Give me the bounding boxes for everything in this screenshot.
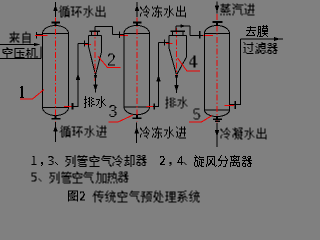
- vessel 3 top nozzle stem: [136, 23, 138, 26]
- vessel 5 condensate pipe: [216, 123, 218, 147]
- vessel 5 bottom nozzle flange 2: [215, 121, 220, 122]
- cyclone 4 drain down arrow: [174, 85, 179, 92]
- vessel 3 cooler bottom tangent line: [124, 106, 150, 108]
- cyclone 2 cone right: [96, 52, 102, 75]
- cyclone 4 inlet pipe: [159, 42, 170, 44]
- vessel 1 cooler shell right wall: [68, 34, 70, 108]
- label: drain 2: [166, 97, 188, 109]
- vessel 1 cooling water inlet pipe: [55, 122, 57, 142]
- callout leader 1 (red): [20, 90, 44, 100]
- callout leader 3 (red): [109, 115, 134, 122]
- cyclone 2 right wall: [101, 36, 103, 53]
- cyclone 2 drain pipe: [95, 75, 97, 93]
- riser 2 up arrow: [156, 75, 161, 82]
- label: chilled water out: [140, 6, 186, 18]
- vessel 3 inlet pipe: [113, 34, 125, 36]
- vessel 3 top nozzle flange: [133, 22, 142, 24]
- compressor lower line: [0, 58, 41, 60]
- cyclone 4 outlet elbow down: [189, 26, 191, 36]
- caption B digit 5: [32, 172, 37, 181]
- vessel 1 cooler bottom tangent line: [43, 107, 69, 109]
- vessel 3 cooler bottom dished head: [124, 107, 150, 115]
- vessel 5 top nozzle stem: [216, 23, 218, 26]
- vessel 5 condensate down arrow: [215, 130, 220, 137]
- callout digit 4: [190, 56, 198, 68]
- vessel 1 cooler top tangent line: [43, 33, 69, 35]
- vessel 5 heater top dished head: [204, 26, 229, 34]
- caption A: cyclone separator: [194, 155, 252, 167]
- cyclone 2 outlet flange bar: [90, 31, 101, 33]
- cyclone 4 outlet pipe horizontal: [176, 25, 190, 27]
- vessel 1 outlet flange tick: [72, 103, 74, 109]
- cyclone 2 cone left: [89, 47, 96, 76]
- label: from (lai zi): [9, 32, 30, 44]
- air inlet red centerline: [35, 35, 48, 37]
- label: drain 1: [84, 96, 106, 108]
- cyclone 4 inlet red centerline: [166, 43, 173, 45]
- callout digit 5: [194, 109, 201, 120]
- callout leader 2 (red): [98, 56, 121, 68]
- cyclone 2 outlet pipe elbow down: [112, 27, 114, 35]
- vessel 3 air outlet pipe: [150, 106, 160, 108]
- cyclone 2 flange tick left: [91, 32, 93, 36]
- cyclone 2 centerline (red dash-dot): [94, 29, 96, 82]
- cyclone 2 inlet flange tick: [84, 41, 86, 47]
- cyclone 4 outlet stub: [175, 26, 177, 31]
- cyclone 4 cone left: [169, 48, 177, 75]
- label: circulating water out: [59, 6, 106, 18]
- vessel 1 top nozzle stem: [55, 23, 57, 26]
- callout digit 3: [110, 105, 117, 117]
- vessel 5 steam down arrow: [215, 6, 220, 13]
- vessel 1 cooler bottom dished head: [43, 108, 69, 116]
- vessel 1 bottom nozzle flange: [51, 118, 60, 120]
- vessel 5 bottom nozzle flange: [213, 118, 222, 120]
- caption A: tube air cooler: [66, 155, 147, 167]
- cyclone 4 top edge: [169, 35, 187, 37]
- vessel 3 inlet red centerline: [120, 35, 128, 37]
- cyclone 4 centerline (red dash-dot): [176, 28, 178, 82]
- caption A dun comma 1: [55, 162, 58, 165]
- label: to membrane: [246, 25, 268, 37]
- vessel 1 centerline (red dash-dot): [55, 18, 57, 122]
- filter outlet pipe horizontal: [241, 38, 284, 40]
- cyclone 2 left wall: [88, 36, 90, 47]
- riser pipe to cyclone 2: [77, 44, 79, 107]
- vessel 1 air outlet red centerline: [64, 106, 73, 108]
- vessel 3 bottom nozzle flange: [133, 118, 142, 120]
- cyclone 2 cone tip wedge: [94, 75, 97, 80]
- vessel 3 cooler shell left wall: [123, 34, 125, 108]
- vessel 5 heater shell left wall: [204, 34, 206, 111]
- air inlet flange tick: [36, 32, 38, 39]
- caption C title: [93, 191, 200, 203]
- vessel 5 inlet pipe: [190, 35, 205, 37]
- caption A dun comma 2: [184, 162, 187, 165]
- vessel 3 water outlet up arrow: [135, 5, 140, 11]
- cyclone 2 inlet pipe: [78, 43, 89, 45]
- cyclone 2 drain down arrow: [93, 85, 98, 92]
- vessel 5 air outlet red centerline: [225, 105, 235, 107]
- cyclone 2 outlet stub: [94, 27, 96, 31]
- vessel 3 cooler top tangent line: [124, 33, 150, 35]
- callout digit 1: [20, 86, 24, 98]
- caption B: tube air heater: [50, 172, 129, 184]
- vessel 5 heater shell right wall: [229, 34, 231, 111]
- label: air compressor: [3, 47, 38, 59]
- caption A digit 2: [160, 156, 165, 165]
- caption A digit 1: [32, 156, 37, 165]
- vessel 3 centerline (red dash-dot): [136, 18, 138, 122]
- callout leader 5 (red): [189, 116, 212, 123]
- caption C figure number: [68, 191, 85, 202]
- vessel 3 cooler top dished head: [124, 26, 150, 34]
- label: condensate out: [221, 128, 267, 140]
- vessel 3 cooler shell right wall: [149, 34, 151, 108]
- cyclone 4 cone tip wedge: [175, 75, 178, 80]
- label: circulating water in: [60, 126, 107, 138]
- vessel 1 air outlet pipe: [69, 106, 79, 108]
- filter riser pipe: [240, 39, 242, 105]
- cyclone 4 inlet flange tick: [164, 40, 166, 46]
- vessel 5 steam inlet pipe: [216, 2, 218, 14]
- vessel 3 air outlet red centerline: [147, 106, 154, 108]
- callout digit 2: [108, 54, 115, 66]
- cyclone 2 top edge: [89, 35, 102, 37]
- compressor lower line riser: [40, 47, 42, 59]
- vessel 1 water inlet up arrow: [53, 126, 58, 132]
- label: chilled water in: [140, 127, 186, 139]
- compressor flow arrow line: [0, 44, 40, 46]
- vessel 5 centerline (red dash-dot): [216, 14, 218, 123]
- vessel 5 outlet flange tick: [234, 101, 236, 109]
- caption A digit 3: [49, 156, 54, 165]
- cyclone 4 cone right: [177, 57, 187, 75]
- vessel 5 air outlet pipe: [230, 104, 242, 106]
- vessel 3 bottom nozzle stem: [136, 115, 138, 118]
- vessel 1 bottom nozzle stem: [55, 116, 57, 118]
- caption A comma 2: [170, 162, 172, 166]
- caption A digit 4: [177, 156, 183, 165]
- vessel 5 heater top tangent line: [205, 33, 230, 35]
- cyclone 4 left wall: [168, 36, 170, 49]
- air inlet nozzle pipe: [37, 34, 43, 36]
- callout leader 4 (red): [178, 58, 201, 71]
- cyclone 4 outlet flow arrow: [181, 24, 187, 28]
- caption A comma 1: [41, 162, 43, 166]
- cyclone 4 drain pipe: [176, 75, 178, 93]
- filter line flow arrow: [274, 37, 280, 41]
- caption B dun comma: [39, 178, 42, 181]
- cyclone 4 flange tick right: [182, 32, 184, 36]
- compressor flow arrowhead: [34, 43, 40, 46]
- vessel 3 inlet flange tick: [119, 32, 121, 39]
- vessel 3 chilled water outlet pipe: [136, 2, 138, 17]
- vessel 5 heater bottom tangent line: [205, 109, 230, 111]
- vessel 3 chilled water inlet pipe: [136, 122, 138, 143]
- label: filter: [244, 42, 278, 54]
- vessel 5 heater bottom dished head: [204, 110, 229, 117]
- vessel 3 water inlet up arrow: [134, 127, 139, 133]
- vessel 5 inlet flange tick: [199, 31, 201, 39]
- label: steam in: [221, 4, 255, 16]
- vessel 1 cooler shell left wall: [42, 34, 44, 108]
- cyclone 4 flange tick left: [172, 32, 174, 36]
- vessel 5 inlet red centerline: [203, 35, 213, 37]
- vessel 3 outlet flange tick: [153, 103, 155, 109]
- cyclone 2 flange tick right: [97, 32, 99, 36]
- riser pipe to cyclone 4: [158, 43, 160, 107]
- riser up arrow: [76, 73, 81, 80]
- cyclone 2 inlet red centerline: [85, 44, 91, 46]
- vessel 5 top nozzle flange: [213, 21, 223, 23]
- cyclone 2 outlet pipe horizontal: [95, 26, 113, 28]
- vessel 1 cooling water outlet pipe: [55, 2, 57, 17]
- cyclone 4 right wall: [186, 36, 188, 58]
- cyclone 4 outlet flange bar: [171, 31, 186, 33]
- vessel 1 water outlet up arrow: [53, 5, 58, 11]
- vessel 5 bottom nozzle stem: [216, 116, 218, 118]
- vessel 1 cooler top dished head: [43, 26, 69, 34]
- vessel 1 top nozzle flange: [51, 22, 60, 24]
